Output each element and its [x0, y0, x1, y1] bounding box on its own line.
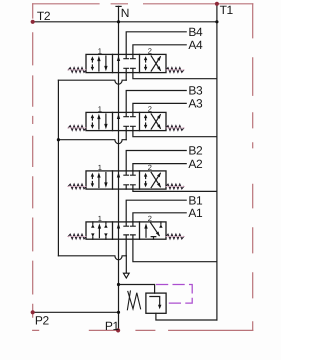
valve V1 body 3-position boxes — [86, 54, 166, 72]
svg-text:2: 2 — [148, 46, 152, 55]
node V2 center blocked port A top — [131, 112, 136, 116]
svg-text:2: 2 — [148, 214, 152, 223]
spring V4 right — [166, 234, 185, 239]
svg-text:N: N — [121, 6, 129, 20]
valve V2 position-2 block crossed arrows — [144, 114, 161, 129]
wire work port B2 riser and line — [126, 151, 186, 171]
node V3 center blocked port A top — [131, 171, 136, 175]
node V1 center blocked port A top — [131, 54, 136, 58]
wire tank return valve V2 — [133, 131, 217, 137]
wire carryover stub valve 4 — [125, 239, 127, 256]
wire carryover stub valve 2 — [125, 131, 127, 140]
node junction P2-P1 — [117, 311, 120, 314]
node V1 center blocked port B bottom — [124, 68, 129, 72]
node V4 center blocked port B bottom — [124, 235, 129, 239]
node port P2 marker — [31, 310, 35, 314]
wire work port A2 riser and line — [133, 164, 186, 171]
valve V3 body 3-position boxes — [86, 171, 166, 189]
valve V4 body 3-position boxes — [86, 222, 166, 239]
node V2 center blocked port B bottom — [124, 126, 129, 130]
valve V2 body 3-position boxes — [86, 112, 166, 130]
node N line top cap — [116, 5, 121, 7]
node V3 center N-flow arrow — [117, 172, 120, 177]
spring V1 right — [166, 68, 185, 73]
node V2 center blocked port A bottom — [131, 126, 136, 130]
spring V3 right — [166, 184, 185, 189]
node V3 center blocked port A bottom — [131, 185, 136, 189]
valve V4 position-2 block diagonal arrow — [144, 222, 162, 239]
wire carryover branch valve 2 with crossover hop — [58, 140, 126, 144]
wire tank return valve V3 — [133, 189, 217, 191]
wire carryover drop to outlet — [125, 256, 127, 273]
wire work port A1 riser and line — [133, 213, 186, 222]
spring V4 left — [67, 234, 86, 239]
valve V4 position-1 block single-acting arrows — [91, 222, 108, 239]
wire T2-T1 top tank line — [33, 21, 217, 23]
svg-text:T2: T2 — [37, 9, 51, 23]
wire work port A4 riser and line — [133, 45, 186, 55]
relief valve RV1 body — [146, 293, 166, 313]
node V1 center blocked port A bottom — [131, 68, 136, 72]
node junction relief branch — [117, 283, 120, 286]
spring V2 right — [166, 126, 185, 131]
node V1 center N-flow arrow — [117, 56, 120, 61]
enclosure dashed boundary — [33, 4, 253, 331]
svg-text:A4: A4 — [188, 38, 203, 52]
svg-text:B3: B3 — [188, 84, 203, 98]
node port T2 marker — [31, 20, 35, 24]
node V4 center N-flow arrow — [117, 223, 120, 228]
valve V1 position-2 block crossed arrows — [144, 56, 161, 71]
node junction N / tank top — [117, 20, 120, 23]
svg-text:1: 1 — [98, 104, 102, 113]
node V2 center N-flow arrow — [117, 114, 120, 119]
svg-text:P1: P1 — [105, 319, 120, 333]
svg-text:A3: A3 — [188, 97, 203, 111]
node V4 center blocked port A bottom — [131, 235, 136, 239]
spring V1 left — [67, 68, 86, 73]
node V3 center blocked port B top — [124, 171, 129, 175]
wire work port A3 riser and line — [133, 103, 186, 112]
relief valve RV1 adjustable spring — [127, 291, 140, 310]
svg-text:A1: A1 — [188, 206, 203, 220]
svg-text:2: 2 — [148, 104, 152, 113]
svg-text:A2: A2 — [188, 157, 203, 171]
relief valve RV1 pilot line (dashed) — [157, 285, 193, 304]
node V1 center blocked port B top — [124, 54, 129, 58]
node junction bus branch 2 — [57, 138, 60, 141]
spring V3 left — [67, 184, 86, 189]
wire P2 inlet line — [33, 311, 119, 313]
wire carryover branch valve 4 with crossover hop — [58, 256, 126, 260]
wire work port B4 riser and line — [126, 32, 186, 55]
svg-text:1: 1 — [98, 163, 102, 172]
node port T1 marker — [215, 2, 219, 6]
wire carryover branch valve 1 with crossover hop — [58, 80, 126, 84]
svg-text:1: 1 — [98, 46, 102, 55]
relief valve RV1 internal flow arrow — [150, 297, 162, 310]
svg-text:P2: P2 — [35, 313, 50, 327]
wire tank return valve V1 — [133, 73, 217, 79]
valve V2 position-1 block arrows — [91, 114, 108, 129]
svg-text:2: 2 — [148, 163, 152, 172]
wire carryover bus left — [57, 80, 59, 256]
node port P1 marker — [116, 328, 120, 332]
wire work port B3 riser and line — [126, 91, 186, 113]
valve V3 position-1 block arrows — [91, 172, 108, 187]
wire work port B1 riser and line — [126, 200, 186, 222]
node V4 center blocked port B top — [124, 222, 129, 226]
svg-text:B2: B2 — [188, 144, 203, 158]
wire tank return valve V4 — [133, 239, 217, 262]
node open flow arrow into outlet — [123, 273, 129, 278]
svg-text:B4: B4 — [188, 25, 203, 39]
wire T1 right tank vertical — [216, 4, 218, 320]
spring V2 left — [67, 126, 86, 131]
wire carryover stub valve 1 — [125, 73, 127, 81]
wire relief valve outlet to tank — [156, 313, 217, 320]
svg-text:1: 1 — [98, 214, 102, 223]
valve V1 position-1 block arrows — [91, 56, 108, 71]
svg-text:T1: T1 — [220, 3, 234, 17]
node junction T1 drop — [215, 20, 218, 23]
node V3 center blocked port B bottom — [124, 185, 129, 189]
wire N open-center line — [118, 6, 120, 330]
valve V3 position-2 block crossed arrows — [144, 172, 161, 187]
node V4 center blocked port A top — [131, 222, 136, 226]
wire relief valve supply branch — [119, 285, 155, 294]
node V2 center blocked port B top — [124, 112, 129, 116]
